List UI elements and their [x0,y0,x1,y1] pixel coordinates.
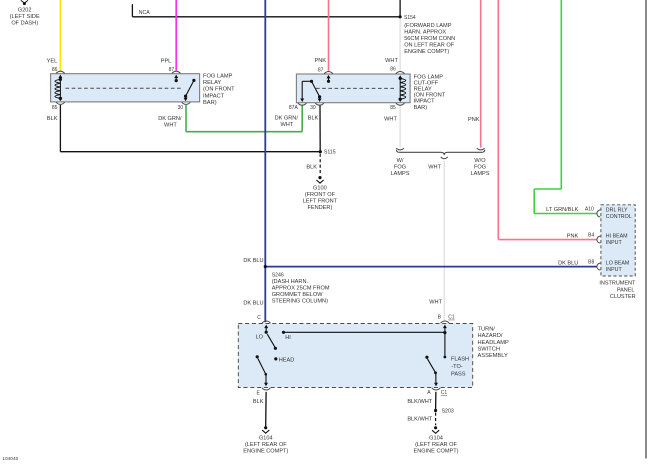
svg-text:DK GRN/: DK GRN/ [275,115,299,121]
svg-text:STEERING COLUMN): STEERING COLUMN) [272,299,328,305]
svg-text:WHT: WHT [384,117,397,123]
svg-text:BLK: BLK [253,399,264,405]
svg-text:ENGINE COMPT): ENGINE COMPT) [413,448,458,454]
svg-text:LT GRN/BLK: LT GRN/BLK [546,207,578,213]
svg-text:FOG: FOG [474,164,486,170]
svg-text:(DASH HARN.: (DASH HARN. [272,279,309,285]
svg-text:HI BEAM: HI BEAM [606,234,628,240]
svg-text:WHT: WHT [164,123,177,129]
svg-text:IMPACT: IMPACT [414,99,436,105]
svg-text:G104: G104 [259,436,273,442]
svg-text:BAR): BAR) [414,105,428,111]
svg-text:A10: A10 [585,207,594,213]
svg-text:56CM FROM CONN: 56CM FROM CONN [404,36,455,42]
svg-text:86: 86 [52,67,58,73]
svg-text:87A: 87A [289,105,299,111]
svg-text:G202: G202 [18,7,32,13]
svg-text:DK BLU: DK BLU [243,258,263,264]
svg-text:GROMMET BELOW: GROMMET BELOW [272,292,324,298]
svg-text:S154: S154 [404,15,416,21]
svg-text:(ON FRONT: (ON FRONT [203,87,235,93]
svg-text:DRL RLY: DRL RLY [606,207,628,213]
svg-text:FLASH: FLASH [451,357,469,363]
svg-text:CLUSTER: CLUSTER [610,294,636,300]
svg-text:S203: S203 [442,408,454,414]
svg-text:PNK: PNK [567,234,579,240]
svg-text:S246: S246 [272,272,284,278]
svg-text:PASS: PASS [451,371,466,377]
svg-text:LO: LO [256,334,264,340]
svg-text:W/: W/ [397,158,404,164]
svg-text:86: 86 [390,66,396,72]
svg-text:30: 30 [177,105,183,111]
svg-text:87: 87 [318,67,324,73]
svg-text:FOG LAMP: FOG LAMP [203,73,233,79]
svg-text:85: 85 [390,105,396,111]
svg-text:(FRONT OF: (FRONT OF [305,192,336,198]
svg-text:-TO-: -TO- [451,364,463,370]
svg-text:YEL: YEL [47,59,58,65]
svg-text:BLK/WHT: BLK/WHT [407,399,432,405]
svg-text:DK BLU: DK BLU [243,300,263,306]
svg-text:WHT: WHT [280,122,293,128]
svg-text:OF DASH): OF DASH) [11,21,38,27]
svg-text:INSTRUMENT: INSTRUMENT [599,281,636,287]
svg-text:(LEFT REAR OF: (LEFT REAR OF [415,442,457,448]
svg-text:BLK/WHT: BLK/WHT [407,417,432,423]
svg-text:FENDER): FENDER) [307,205,332,211]
svg-text:B4: B4 [588,233,594,239]
svg-text:BLK: BLK [306,164,317,170]
svg-text:PANEL: PANEL [617,287,635,293]
svg-text:HI: HI [285,335,291,341]
svg-text:HARN. APPROX: HARN. APPROX [404,29,446,35]
svg-text:C1: C1 [441,390,448,396]
svg-text:WHT: WHT [428,164,441,170]
svg-text:ENGINE COMPT): ENGINE COMPT) [404,49,449,55]
svg-text:IMPACT: IMPACT [203,93,225,99]
svg-text:S115: S115 [324,150,336,156]
svg-text:BLK: BLK [47,116,58,122]
svg-text:(LEFT REAR OF: (LEFT REAR OF [245,442,287,448]
svg-text:DK BLU: DK BLU [558,261,578,267]
svg-text:85: 85 [52,105,58,111]
svg-text:RELAY: RELAY [203,80,221,86]
svg-text:FOG LAMP: FOG LAMP [414,74,444,80]
svg-text:30: 30 [310,105,316,111]
svg-text:(ON FRONT: (ON FRONT [414,93,446,99]
svg-text:TURN/: TURN/ [478,326,496,332]
svg-text:B8: B8 [588,260,594,266]
svg-text:LAMPS: LAMPS [391,171,410,177]
svg-text:PPL: PPL [161,59,172,65]
svg-text:HAZARD/: HAZARD/ [478,333,503,339]
svg-text:WHT: WHT [429,299,442,305]
svg-text:CUT-OFF: CUT-OFF [414,80,439,86]
svg-text:ASSEMBLY: ASSEMBLY [478,353,508,359]
svg-text:RELAY: RELAY [414,87,432,93]
svg-text:CONTROL: CONTROL [606,214,632,220]
svg-text:HEADLAMP: HEADLAMP [478,340,509,346]
svg-text:G100: G100 [313,185,327,191]
svg-text:ENGINE COMPT): ENGINE COMPT) [243,449,288,455]
svg-text:LAMPS: LAMPS [471,171,490,177]
svg-text:G104: G104 [429,436,443,442]
svg-text:(LEFT SIDE: (LEFT SIDE [10,14,40,20]
svg-text:104040: 104040 [2,456,18,462]
svg-text:PNK: PNK [314,58,326,64]
svg-text:(FORWARD LAMP: (FORWARD LAMP [404,23,452,29]
svg-text:BAR): BAR) [203,100,217,106]
svg-text:W/O: W/O [474,158,486,164]
svg-text:BLK: BLK [308,115,319,121]
svg-text:87: 87 [169,67,175,73]
svg-text:E: E [256,391,260,397]
svg-text:HEAD: HEAD [279,357,295,363]
svg-text:APPROX 25CM FROM: APPROX 25CM FROM [272,286,330,292]
svg-text:LO BEAM: LO BEAM [606,261,630,267]
svg-text:INPUT: INPUT [606,267,623,273]
svg-text:B: B [438,315,442,321]
svg-text:LEFT FRONT: LEFT FRONT [303,199,338,205]
svg-text:DK GRN/: DK GRN/ [158,116,182,122]
svg-text:INPUT: INPUT [606,240,623,246]
svg-text:WHT: WHT [385,58,398,64]
svg-text:NCA: NCA [139,10,150,16]
svg-text:PNK: PNK [468,117,480,123]
svg-text:A: A [427,390,431,396]
svg-text:C: C [257,315,261,321]
svg-text:SWITCH: SWITCH [478,347,500,353]
svg-text:ON LEFT REAR OF: ON LEFT REAR OF [404,42,455,48]
svg-text:FOG: FOG [394,164,406,170]
svg-text:C1: C1 [448,315,455,321]
